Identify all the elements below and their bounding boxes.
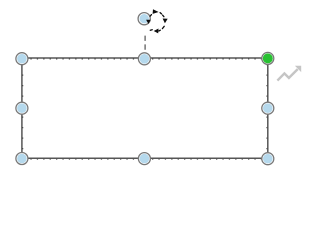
rotate cursor dashes lower-right [159, 26, 164, 31]
handle bottom-middle [138, 153, 150, 165]
rotate cursor dash upper-left [150, 15, 151, 17]
handle top-middle [138, 53, 150, 65]
trend arrow icon zigzag [277, 69, 297, 81]
rotate cursor arrow right (points down) [163, 19, 168, 24]
left edge hatch ticks [22, 64, 24, 158]
top edge hatch ticks [24, 58, 268, 60]
selection border top edge [22, 57, 268, 59]
rotation handle [138, 13, 150, 25]
handle bottom-left [16, 153, 28, 165]
rotate cursor dashes upper-right [160, 13, 164, 17]
rotation connector dashed line [144, 36, 146, 53]
selection border left edge [21, 58, 23, 158]
trend arrow icon head [295, 66, 301, 72]
handle top-left [16, 53, 28, 65]
handle bottom-right [262, 153, 274, 165]
right edge hatch ticks [266, 64, 268, 158]
rotate cursor arrow top (points right) [153, 9, 159, 14]
handle top-right (green) [262, 52, 274, 64]
selection border right edge [267, 58, 269, 158]
selection border bottom edge [22, 157, 268, 159]
handle middle-right [262, 102, 274, 114]
bottom edge hatch ticks [24, 158, 268, 160]
rotate cursor dash lower-left [150, 29, 152, 32]
rotate cursor arrow left (points down, over handle) [146, 20, 151, 24]
handle middle-left [16, 102, 28, 114]
rotate cursor arrow bottom (points left) [154, 29, 159, 34]
